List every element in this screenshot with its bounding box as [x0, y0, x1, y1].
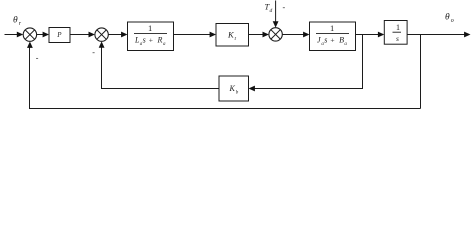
wire input to summer S1: [5, 34, 18, 36]
svg-text:P: P: [56, 31, 62, 39]
svg-text:R: R: [157, 36, 163, 45]
svg-text:θ: θ: [13, 16, 18, 26]
input label theta_r: [13, 16, 22, 28]
disturbance label Td: [265, 2, 273, 15]
arrowhead into Kt: [210, 32, 216, 38]
wire Kt to summer S3: [249, 34, 264, 36]
wire P to summer S2: [70, 34, 90, 36]
svg-text:+: +: [149, 35, 153, 44]
output label theta_o: [445, 13, 454, 25]
svg-text:s: s: [143, 36, 146, 45]
wire back-emf feedback right segment: [254, 88, 363, 90]
arrowhead up into S2: [99, 41, 105, 47]
svg-text:1: 1: [330, 23, 334, 33]
output arrowhead: [464, 32, 470, 38]
svg-text:1: 1: [148, 23, 152, 33]
summing junction S1: [23, 28, 36, 41]
arrowhead into summer S1: [17, 32, 23, 38]
svg-text:+: +: [330, 35, 334, 44]
wire S1 to block P: [37, 34, 44, 36]
arrowhead up into S1: [27, 42, 33, 48]
svg-text:θ: θ: [445, 13, 450, 23]
arrowhead into Kb block: [249, 86, 255, 92]
output wire to theta_o: [407, 34, 465, 36]
svg-text:-: -: [36, 54, 39, 63]
arrowhead into armature block: [121, 32, 127, 38]
svg-text:r: r: [19, 21, 22, 27]
svg-text:s: s: [396, 34, 399, 43]
svg-text:s: s: [324, 36, 327, 45]
block inertia 1/(Jm s + Bm): [310, 22, 356, 51]
svg-text:o: o: [451, 18, 454, 24]
svg-text:K: K: [229, 84, 236, 93]
summing junction S2: [95, 28, 108, 41]
wire S2 to armature block: [108, 34, 122, 36]
arrowhead into integrator: [378, 32, 384, 38]
svg-text:1: 1: [396, 23, 400, 32]
block integrator 1/s: [384, 21, 407, 45]
arrowhead into block P: [43, 32, 49, 38]
wire S3 to inertia block: [282, 34, 304, 36]
svg-text:-: -: [92, 48, 95, 57]
block Kt: [216, 24, 249, 47]
summing junction S3: [269, 28, 282, 41]
block Kb: [219, 76, 249, 101]
svg-text:-: -: [283, 3, 286, 12]
wire Kb to S2 riser: [102, 46, 220, 89]
node tap to back-emf feedback: [362, 35, 364, 89]
svg-text:J: J: [317, 36, 321, 45]
arrowhead into summer S2: [89, 32, 95, 38]
block armature 1/(La s + Ra): [128, 22, 174, 51]
arrowhead Td into S3: [273, 21, 279, 27]
arrowhead into summer S3: [263, 32, 269, 38]
block P: [49, 28, 70, 43]
outer feedback wire: [30, 46, 421, 109]
node tap to outer feedback: [420, 35, 422, 109]
wire armature block to Kt: [174, 34, 211, 36]
arrowhead into inertia block: [303, 32, 309, 38]
svg-text:d: d: [270, 8, 273, 14]
wire inertia block to integrator: [356, 34, 380, 36]
svg-text:B: B: [339, 36, 344, 45]
wire Td into S3: [275, 1, 277, 23]
